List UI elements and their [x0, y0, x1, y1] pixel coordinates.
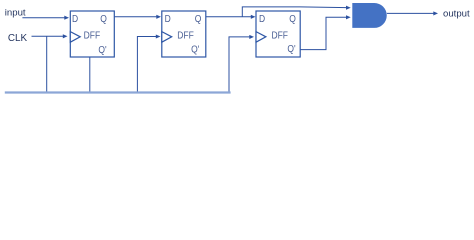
- svg-text:output: output: [443, 9, 470, 20]
- svg-text:CLK: CLK: [8, 33, 28, 44]
- svg-text:DFF: DFF: [177, 30, 194, 41]
- svg-text:Q: Q: [100, 13, 107, 24]
- svg-text:Q': Q': [98, 44, 106, 55]
- svg-text:D: D: [72, 13, 78, 24]
- svg-text:DFF: DFF: [84, 30, 101, 41]
- svg-text:D: D: [165, 13, 171, 24]
- svg-text:D: D: [259, 13, 265, 24]
- svg-text:DFF: DFF: [271, 30, 288, 41]
- svg-text:Q': Q': [287, 43, 295, 54]
- svg-text:input: input: [5, 8, 26, 19]
- svg-text:Q': Q': [191, 44, 199, 55]
- svg-text:Q: Q: [289, 13, 296, 24]
- svg-text:Q: Q: [195, 13, 202, 24]
